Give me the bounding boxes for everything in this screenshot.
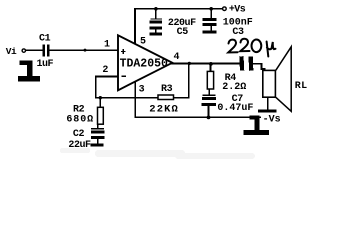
- svg-text:TDA2050: TDA2050: [120, 58, 168, 71]
- capacitor C3: [203, 18, 217, 26]
- node +Vs terminal: [223, 7, 227, 11]
- svg-text:1: 1: [104, 40, 110, 51]
- svg-text:3: 3: [139, 84, 145, 95]
- wire C3 to ground stub: [210, 26, 212, 31]
- wire R4 stub up: [210, 64, 212, 72]
- svg-text:-Vs: -Vs: [263, 115, 281, 126]
- svg-text:22KΩ: 22KΩ: [149, 103, 179, 115]
- svg-text:1uF: 1uF: [37, 59, 54, 70]
- wire C5 drop: [155, 9, 157, 19]
- capacitor 220u hand-drawn plate 2: [249, 56, 254, 70]
- wire R3 to output riser: [174, 97, 190, 99]
- svg-text:0.47uF: 0.47uF: [217, 103, 253, 114]
- node on input wire: [84, 49, 87, 52]
- svg-text:RL: RL: [295, 81, 308, 92]
- wire C1 to pin 1: [49, 49, 117, 51]
- capacitor C5: [149, 18, 162, 29]
- svg-text:+Vs: +Vs: [229, 5, 246, 16]
- ground C5 bar: [149, 32, 162, 35]
- node C7 rail junction: [207, 116, 211, 120]
- speaker RL box: [263, 70, 276, 97]
- wire C3 drop: [210, 9, 212, 18]
- faint scan smudges: [60, 148, 255, 159]
- svg-text:5: 5: [140, 36, 146, 47]
- capacitor C7: [201, 95, 216, 106]
- wire speaker down: [267, 97, 269, 109]
- wire pin 2 stub: [95, 76, 118, 78]
- wire C5 to ground stub: [155, 29, 157, 32]
- wire 220u cap to speaker: [253, 64, 264, 71]
- capacitor C2: [91, 128, 104, 139]
- wire pin 2 down: [95, 76, 97, 99]
- node output R4 junction: [209, 62, 213, 66]
- ground speaker bar: [258, 109, 276, 112]
- op-amp U1 TDA2050: [118, 35, 172, 90]
- wire C2 to ground stub: [97, 139, 99, 144]
- resistor R2: [98, 107, 104, 124]
- speaker RL cone: [276, 47, 291, 112]
- op-amp + input mark: [121, 49, 125, 54]
- op-amp - input mark: [121, 75, 126, 77]
- svg-text:Vi: Vi: [6, 46, 17, 57]
- ground C2 bar: [91, 143, 104, 146]
- wire -Vs bottom rail: [134, 116, 261, 118]
- svg-text:2.2Ω: 2.2Ω: [222, 82, 246, 93]
- resistor R4: [207, 71, 213, 89]
- ground (hand-drawn bold mark at input): [18, 61, 40, 82]
- wire output from pin 4: [171, 63, 241, 65]
- wire +Vs rail: [134, 8, 222, 10]
- svg-text:C1: C1: [39, 34, 51, 45]
- wire R2 to C2: [97, 124, 99, 128]
- svg-text:C5: C5: [177, 27, 189, 38]
- svg-text:R3: R3: [161, 84, 173, 95]
- svg-text:C3: C3: [232, 27, 244, 38]
- resistor R3: [158, 95, 174, 100]
- annotation handwritten 220u: [228, 39, 275, 57]
- ground C3 bar: [203, 31, 217, 34]
- svg-text:4: 4: [174, 52, 180, 63]
- capacitor 220u hand-drawn plate 1: [239, 56, 244, 70]
- svg-text:2: 2: [102, 65, 108, 76]
- wire input terminal to C1: [26, 49, 43, 51]
- wire feedback row: [95, 97, 158, 99]
- wire output riser: [188, 63, 190, 99]
- wire R4 to C7: [209, 89, 211, 95]
- node C5 junction: [154, 7, 158, 11]
- node output R3 junction: [188, 62, 191, 65]
- node R2 junction: [99, 96, 102, 99]
- ground (hand-drawn bold mark at -Vs): [244, 116, 269, 135]
- wire R2 drop: [100, 98, 102, 108]
- svg-text:680Ω: 680Ω: [66, 115, 94, 126]
- wire C7 to rail stub: [208, 106, 210, 117]
- wire pin 5 to +Vs rail: [134, 8, 136, 45]
- svg-text:C2: C2: [73, 129, 85, 140]
- node C3 junction: [209, 7, 213, 11]
- wire pin 3 down to negative rail: [134, 81, 136, 118]
- node Vi input terminal: [22, 49, 25, 52]
- capacitor C1: [43, 45, 50, 57]
